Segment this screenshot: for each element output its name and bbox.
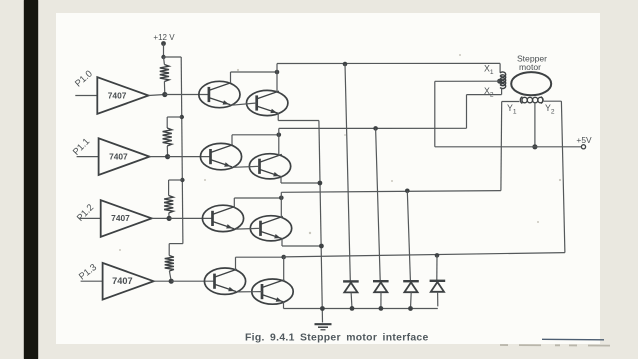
node base ch2 (165, 154, 170, 159)
wire rail to R2 (167, 116, 182, 118)
wire emitter Q6 run (282, 245, 321, 247)
svg-text:P1.0: P1.0 (72, 68, 94, 89)
winding Y1/Y2 coil (520, 97, 543, 104)
wire buffer U1 output (149, 95, 165, 96)
node phase3 diode tap (405, 189, 410, 194)
transistor Q5 (202, 205, 243, 231)
ground (315, 324, 332, 330)
wire base ch3 (169, 217, 213, 219)
wire collector join ch3 (234, 197, 281, 199)
buffer U4 7407 (103, 263, 154, 300)
wire Y1 terminal run (502, 101, 520, 103)
node emitter join ch3 (319, 244, 324, 249)
wire rail to R3 (169, 179, 183, 181)
wire X2 bottom drop (501, 88, 503, 94)
wire ground bus (284, 308, 438, 310)
wire emitter Q8 drop (283, 301, 285, 308)
resistor R4 (165, 256, 174, 272)
diode D1 (343, 281, 359, 292)
wire D2 cathode lead (380, 292, 382, 308)
wire R3 bottom lead (168, 213, 170, 218)
wire emitter chain vertical (319, 121, 323, 323)
wire D1 anode riser (345, 64, 350, 281)
svg-text:+12 V: +12 V (153, 33, 175, 42)
wire X2 to phase2 drop (466, 95, 468, 129)
wire input stub P1.2 (79, 217, 101, 219)
resistor R3 (164, 196, 173, 214)
svg-text:P1.3: P1.3 (76, 261, 98, 282)
node Y center tap to +5V (532, 144, 537, 149)
svg-text:7407: 7407 (112, 276, 132, 286)
winding X1/X2 coil (500, 72, 506, 89)
power +12V terminal (153, 33, 175, 46)
diode D4 (430, 281, 446, 292)
resistor R2 (163, 128, 172, 146)
wire X center tap drop (434, 81, 436, 147)
node collector join ch4 (281, 255, 286, 260)
svg-text:motor: motor (519, 62, 541, 72)
node D1 ground junction (350, 306, 355, 311)
svg-text:Fig. 9.4.1 Stepper motor inter: Fig. 9.4.1 Stepper motor interface (245, 333, 429, 344)
wire R4 bottom lead (169, 271, 171, 281)
svg-text:X2: X2 (484, 86, 494, 98)
node emitter join ch2 (318, 181, 323, 186)
wire D3 cathode lead (410, 292, 413, 308)
wire collector join ch2 (232, 134, 279, 136)
transistor Q7 (204, 268, 245, 294)
wire collector riser Q2 (276, 64, 278, 93)
buffer U1 7407 (97, 77, 148, 114)
wire +12V vertical rail (181, 57, 183, 244)
svg-text:+5V: +5V (576, 135, 592, 145)
wire D2 anode riser (376, 128, 381, 280)
wire input stub P1.1 (77, 156, 99, 158)
node collector join ch1 (275, 70, 280, 75)
wire phase2 line (279, 127, 467, 129)
transistor Q6 (250, 216, 291, 241)
node base ch4 (169, 279, 174, 284)
node rail tap ch3 (180, 178, 184, 182)
wire collector join ch1 (231, 71, 278, 73)
wire collector riser Q6 (280, 192, 282, 218)
buffer U2 7407 (99, 138, 150, 175)
node emitter join ch4 (320, 306, 325, 311)
svg-text:P1.2: P1.2 (74, 201, 95, 223)
wire +12V terminal to node (163, 44, 165, 58)
node base ch3 (167, 216, 172, 221)
wire D1 cathode lead (350, 292, 353, 308)
wire Y2 to phase4 drop (561, 101, 565, 252)
node collector join ch3 (279, 196, 284, 201)
diode D2 (373, 281, 389, 292)
node D3 ground junction (408, 306, 413, 311)
node phase2 diode tap (373, 126, 378, 131)
node +12V junction (161, 55, 165, 59)
svg-text:Y1: Y1 (507, 103, 517, 115)
node collector join ch2 (277, 133, 282, 138)
wire D3 anode riser (407, 191, 410, 281)
wire Y2 terminal run (544, 100, 562, 102)
wire emitter Q2 drop (277, 113, 279, 121)
wire collector riser Q4 (278, 128, 280, 155)
wire collector riser Q3 (231, 135, 233, 145)
wire emitter Q4 run (281, 182, 320, 184)
wire X center tap run (435, 80, 500, 82)
wire phase3 line (281, 191, 501, 193)
wire collector join ch4 (236, 256, 284, 258)
wire +12V node to rail (164, 56, 182, 58)
wire emitter Q1 to base Q2 (232, 103, 257, 105)
resistor R1 (160, 65, 169, 82)
wire D4 anode riser (436, 255, 438, 280)
transistor Q3 (200, 143, 241, 169)
wire buffer U3 output (152, 217, 169, 219)
wire buffer U4 output (154, 280, 172, 282)
svg-text:Y2: Y2 (545, 103, 555, 115)
wire collector riser Q5 (233, 198, 235, 208)
buffer U3 7407 (101, 200, 152, 237)
wire emitter Q6 drop (281, 238, 283, 246)
node D2 ground junction (379, 306, 384, 311)
wire rail elbow to R4 (169, 243, 183, 245)
wire X2 bottom run (467, 94, 502, 96)
transistor Q4 (249, 154, 290, 179)
wire buffer U2 output (150, 156, 168, 158)
wire base ch1 (165, 94, 210, 96)
wire input stub P1.0 (75, 95, 97, 97)
wire emitter Q5 to base Q6 (236, 227, 261, 230)
wire phase4 line (284, 253, 565, 257)
svg-text:7407: 7407 (108, 90, 127, 100)
node phase4 diode tap (435, 253, 440, 258)
motor M (511, 72, 551, 95)
transistor Q1 (199, 81, 240, 107)
wire Y center tap drop (534, 103, 536, 147)
wire emitter Q3 to base Q4 (234, 166, 260, 167)
wire D4 cathode lead (437, 292, 439, 307)
wire input stub P1.3 (81, 280, 103, 282)
svg-text:X1: X1 (484, 64, 494, 76)
node rail tap ch2 (180, 115, 184, 119)
wire collector riser Q1 (230, 72, 232, 83)
wire emitter Q4 drop (280, 176, 282, 183)
wire collector riser Q8 (283, 257, 285, 281)
svg-text:7407: 7407 (111, 213, 130, 223)
wire emitter Q7 to base Q8 (238, 291, 262, 293)
decorative scan marks (119, 54, 561, 251)
node X coil center tap (497, 79, 502, 84)
wire collector riser Q7 (235, 257, 237, 271)
node base ch1 (162, 92, 167, 97)
wire R1 top lead (163, 57, 166, 65)
wire R2 bottom lead (166, 146, 168, 157)
diode D3 (403, 281, 419, 292)
svg-text:P1.1: P1.1 (70, 136, 91, 158)
wire R1 bottom lead (163, 82, 165, 95)
node phase1 diode tap (343, 62, 348, 67)
wire emitter Q2 run (278, 120, 319, 122)
wire base ch4 (171, 280, 215, 282)
transistor Q2 (247, 90, 288, 115)
wire Y1 to phase3 drop (500, 102, 503, 191)
wire phase1 to X1 drop (499, 63, 501, 72)
svg-text:7407: 7407 (109, 151, 128, 161)
power +5V terminal (576, 135, 592, 149)
wire base ch2 (168, 156, 212, 158)
transistor Q8 (252, 279, 293, 304)
wire +5V line (435, 146, 582, 148)
wire phase1 line (277, 62, 500, 64)
